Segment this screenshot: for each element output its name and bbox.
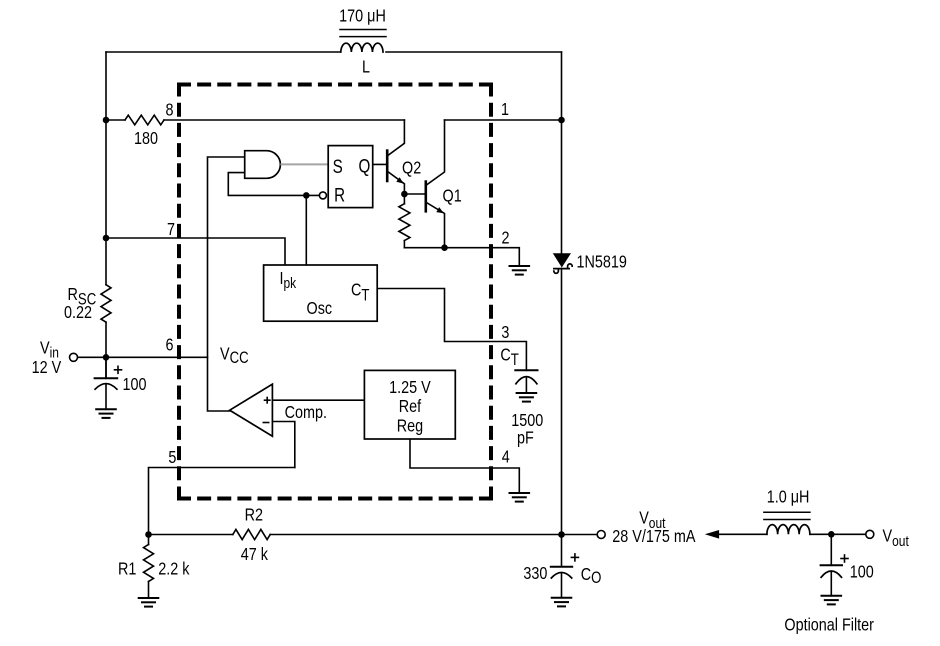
svg-text:100: 100 xyxy=(123,375,147,395)
svg-text:330: 330 xyxy=(523,564,547,584)
svg-text:R: R xyxy=(334,184,345,206)
comparator triangle xyxy=(230,384,273,436)
wire pin 1 xyxy=(445,119,562,121)
terminal Vout main xyxy=(597,531,605,539)
svg-text:R1: R1 xyxy=(118,559,136,579)
junction node R input xyxy=(303,192,310,199)
svg-text:Q: Q xyxy=(359,155,371,177)
svg-text:Osc: Osc xyxy=(307,299,333,319)
wire left rail lower xyxy=(105,322,107,378)
wire output rail right of R2 xyxy=(270,534,597,536)
inductor filter coil xyxy=(767,525,810,535)
ground below filter cap xyxy=(822,596,842,605)
svg-text:0.22: 0.22 xyxy=(64,303,92,323)
capacitor CO stub xyxy=(561,535,563,567)
wire arrow to filter inductor xyxy=(718,533,767,535)
capacitor Cin lower stub xyxy=(105,384,107,409)
oscillator box xyxy=(264,265,378,321)
ground below Cin xyxy=(96,409,116,418)
wire right rail lower xyxy=(561,269,563,535)
resistor 180 xyxy=(125,115,164,125)
transistor Q1 base bar xyxy=(424,182,427,212)
svg-text:7: 7 xyxy=(167,220,175,240)
ground pin 4 xyxy=(510,493,530,502)
transistor Q2 emitter xyxy=(388,172,405,194)
comparator minus input wire xyxy=(272,422,294,468)
resistor R1 xyxy=(148,535,150,545)
svg-text:28 V/175 mA: 28 V/175 mA xyxy=(612,527,695,547)
svg-text:2: 2 xyxy=(501,228,509,248)
resistor Q1 base-emitter xyxy=(403,194,405,204)
svg-text:S: S xyxy=(333,155,343,177)
capacitor CT lower stub xyxy=(525,377,527,393)
terminal Vin xyxy=(70,353,78,361)
svg-text:170 μH: 170 μH xyxy=(339,6,386,26)
diode 1N5819 xyxy=(553,253,571,267)
wire Q2 emitter to Q1 base xyxy=(404,193,425,195)
resistor R2 zigzag xyxy=(233,529,270,539)
reference regulator box xyxy=(364,370,455,439)
svg-text:2.2 k: 2.2 k xyxy=(158,559,190,579)
wire pin 7 xyxy=(106,238,285,265)
IC dashed border xyxy=(177,83,493,501)
svg-text:CO: CO xyxy=(581,564,602,587)
junction node Q1 emitter pin2 xyxy=(441,244,448,251)
svg-text:pF: pF xyxy=(517,428,534,448)
wire top rail right segment xyxy=(386,51,562,53)
svg-text:1N5819: 1N5819 xyxy=(577,252,627,272)
arrow to filter xyxy=(705,530,719,539)
capacitor CT plates xyxy=(515,369,537,371)
wire pin 2 xyxy=(404,248,519,266)
comparator plus input wire xyxy=(272,399,364,401)
wire pin 8 lead xyxy=(106,119,125,121)
wire R node to oscillator xyxy=(305,195,307,265)
plus sign CO xyxy=(571,556,578,558)
svg-text:12 V: 12 V xyxy=(32,358,62,378)
wire comparator output to AND input xyxy=(208,157,245,411)
capacitor filter stub xyxy=(830,534,832,565)
comparator minus sign xyxy=(263,422,270,424)
svg-text:Optional Filter: Optional Filter xyxy=(784,615,874,635)
svg-text:1.25 V: 1.25 V xyxy=(389,378,431,398)
svg-text:Q1: Q1 xyxy=(443,186,462,206)
wire filter inductor to terminal xyxy=(810,533,866,535)
svg-text:Reg: Reg xyxy=(397,416,423,436)
ground below R1 xyxy=(139,598,159,607)
wire left rail xyxy=(105,52,107,285)
terminal Vout filter xyxy=(866,530,874,538)
plus sign filter cap xyxy=(841,558,848,560)
wire pin 5 xyxy=(149,468,295,535)
svg-text:Q2: Q2 xyxy=(402,158,421,178)
svg-text:5: 5 xyxy=(168,448,176,468)
capacitor CO lower stub xyxy=(561,573,563,598)
wire top rail left segment xyxy=(106,51,340,53)
capacitor Cin plates xyxy=(95,377,118,379)
capacitor filter lower stub xyxy=(830,571,832,596)
plus sign Cin xyxy=(115,369,122,371)
svg-text:180: 180 xyxy=(134,128,158,148)
latch box xyxy=(328,146,373,208)
svg-text:L: L xyxy=(362,57,370,77)
junction node feedback xyxy=(145,531,152,538)
wire AND output to S (gray) xyxy=(280,163,328,165)
svg-text:4: 4 xyxy=(502,447,510,467)
svg-text:3: 3 xyxy=(501,322,509,342)
inductor L coil xyxy=(341,43,383,52)
svg-text:47 k: 47 k xyxy=(241,544,269,564)
capacitor CO plates xyxy=(551,566,572,568)
svg-text:1: 1 xyxy=(501,100,509,120)
wire output rail left of R2 xyxy=(149,534,233,536)
ground pin 2 xyxy=(510,266,530,275)
AND gate U1 xyxy=(245,151,281,179)
inductor L core lines xyxy=(340,29,386,31)
latch R inversion bubble xyxy=(319,192,326,199)
svg-text:100: 100 xyxy=(850,562,874,582)
svg-text:8: 8 xyxy=(165,100,173,120)
capacitor Cin stub xyxy=(105,357,107,378)
inductor filter core lines xyxy=(764,511,810,513)
wire AND lower input from R node xyxy=(228,173,319,196)
transistor Q2 base bar xyxy=(386,151,389,181)
wire pin 8 xyxy=(164,119,404,121)
junction node filter cap xyxy=(828,531,835,538)
transistor Q1 collector xyxy=(426,120,444,185)
wire pin 4 xyxy=(410,439,519,493)
svg-text:1.0 μH: 1.0 μH xyxy=(767,487,810,507)
junction node output rail xyxy=(558,531,565,538)
svg-text:R2: R2 xyxy=(245,505,263,525)
capacitor filter plates xyxy=(821,564,842,566)
svg-text:6: 6 xyxy=(165,335,173,355)
junction node pin1/rail xyxy=(558,117,565,124)
svg-text:Ref: Ref xyxy=(399,397,422,417)
comparator plus sign xyxy=(263,397,271,423)
wire oscillator CT output to pin 3 xyxy=(377,289,526,371)
transistor Q1 emitter xyxy=(426,203,444,248)
wire right rail upper xyxy=(561,52,563,253)
ground below CO xyxy=(552,598,572,607)
wire pin 6 xyxy=(78,356,208,358)
junction node pin7/rail xyxy=(103,235,110,242)
junction node pin8/rail xyxy=(103,117,110,124)
svg-text:Comp.: Comp. xyxy=(285,403,327,423)
junction node Q1 base xyxy=(401,191,408,198)
wire latch Q to Q2 base xyxy=(373,163,388,165)
junction node Vin xyxy=(103,354,110,361)
ground below CT xyxy=(517,393,537,402)
resistor Rsc zigzag xyxy=(101,285,111,322)
transistor Q2 collector xyxy=(388,120,405,156)
